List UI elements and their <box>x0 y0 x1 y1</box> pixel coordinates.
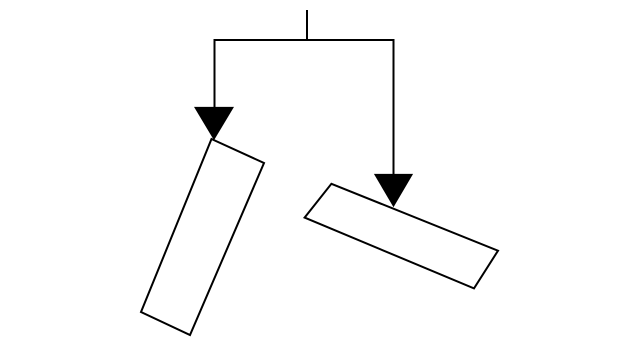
arrowhead: right <box>374 174 413 207</box>
wire: left vertical drop <box>214 39 216 110</box>
arrowhead: left <box>194 107 234 140</box>
wire: horizontal branch <box>214 39 395 41</box>
wire: top vertical stub <box>306 10 308 40</box>
wire: right vertical drop <box>393 39 395 177</box>
rectangle: left tilted box <box>141 139 264 335</box>
rectangle: right tilted box <box>305 184 498 289</box>
